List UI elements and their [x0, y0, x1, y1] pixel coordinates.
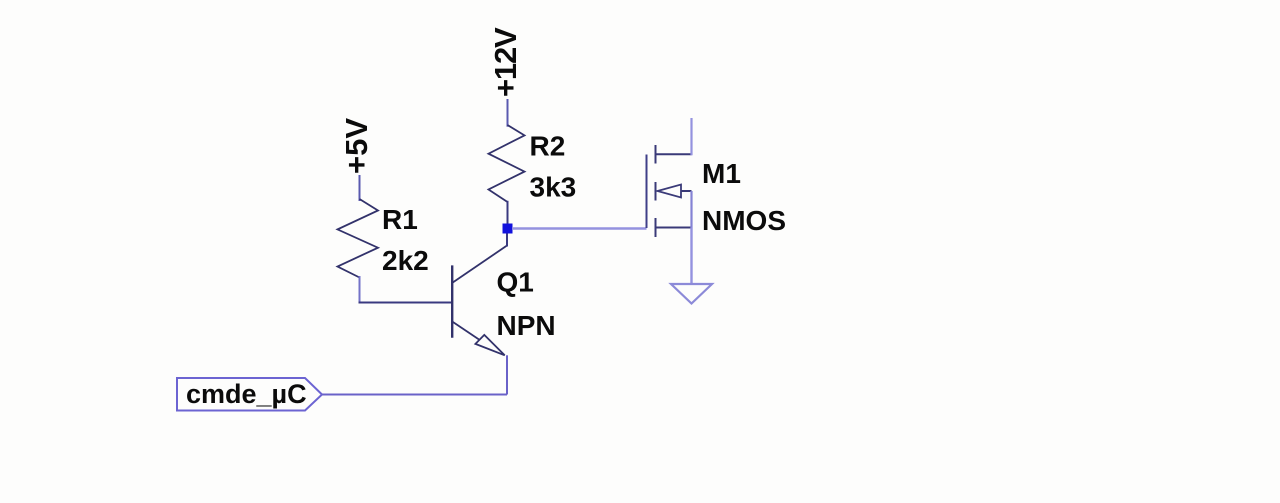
wire junction to M1 gate	[512, 227, 647, 229]
resistor R1	[338, 199, 379, 303]
svg-text:M1: M1	[702, 158, 741, 189]
nmos M1 bulk stub	[681, 190, 692, 192]
svg-text:2k2: 2k2	[382, 245, 429, 276]
wire +12V to R2	[507, 99, 509, 127]
svg-text:NMOS: NMOS	[702, 205, 786, 236]
wire +5V to R1	[359, 175, 361, 201]
nmos M1 source vertical	[690, 191, 692, 228]
svg-text:Q1: Q1	[497, 267, 534, 298]
wire M1 source to ground	[690, 228, 692, 285]
svg-text:+5V: +5V	[339, 118, 374, 174]
nmos M1 bulk arrow	[658, 185, 682, 198]
net flag cmde_uC	[177, 378, 322, 411]
svg-text:NPN: NPN	[497, 310, 556, 341]
transistor Q1	[452, 234, 507, 395]
svg-text:cmde_µC: cmde_µC	[186, 379, 307, 409]
svg-text:R2: R2	[530, 131, 566, 162]
svg-text:R1: R1	[382, 204, 418, 235]
node junction	[503, 224, 513, 234]
resistor R2	[489, 125, 525, 224]
svg-text:+12V: +12V	[488, 27, 523, 97]
svg-text:3k3: 3k3	[530, 172, 577, 203]
ground	[671, 284, 712, 304]
nmos M1 drain stub	[656, 153, 692, 155]
wire R1 to Q1 base	[359, 302, 453, 304]
nmos M1 gate bar	[646, 155, 648, 229]
nmos M1 source stub	[656, 227, 692, 229]
nmos M1 drain lead	[690, 118, 692, 155]
wire flag to Q1 emitter	[322, 394, 507, 396]
nmos M1 channel segments	[655, 145, 657, 237]
